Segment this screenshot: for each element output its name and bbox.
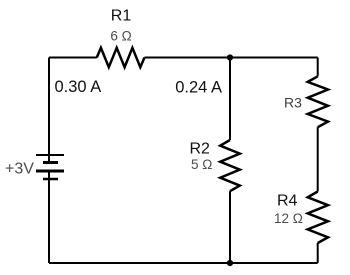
svg-text:0.24 A: 0.24 A [175, 79, 222, 97]
svg-text:5 Ω: 5 Ω [191, 157, 212, 172]
wire middle upper [229, 58, 231, 141]
wire bottom segment [49, 262, 318, 264]
wire right middle [317, 127, 319, 191]
svg-text:+3V: +3V [5, 161, 34, 178]
node top junction [227, 54, 233, 60]
wire right lower [317, 243, 319, 263]
battery plate short upper [43, 161, 58, 164]
battery plate long lower [36, 170, 64, 173]
wire right upper [317, 58, 319, 77]
resistor R4 [308, 192, 328, 244]
battery +3V plate long top [36, 154, 64, 156]
wire middle lower [229, 191, 231, 263]
wire left upper (to battery) [48, 58, 50, 163]
svg-text:R1: R1 [111, 7, 132, 24]
svg-text:R3: R3 [284, 95, 302, 111]
node bottom junction [227, 260, 233, 266]
svg-text:R2: R2 [190, 141, 211, 158]
svg-text:12 Ω: 12 Ω [274, 211, 303, 226]
wire top-left segment [49, 57, 97, 59]
wire left lower (battery to bottom) [48, 171, 50, 263]
wire top-right segment [145, 57, 318, 59]
resistor R3 [308, 76, 328, 127]
svg-text:6 Ω: 6 Ω [110, 29, 131, 44]
resistor R1 [97, 48, 145, 67]
svg-text:R4: R4 [277, 192, 298, 209]
svg-text:0.30 A: 0.30 A [55, 78, 102, 96]
battery plate short bottom [43, 178, 58, 181]
resistor R2 [220, 140, 240, 191]
